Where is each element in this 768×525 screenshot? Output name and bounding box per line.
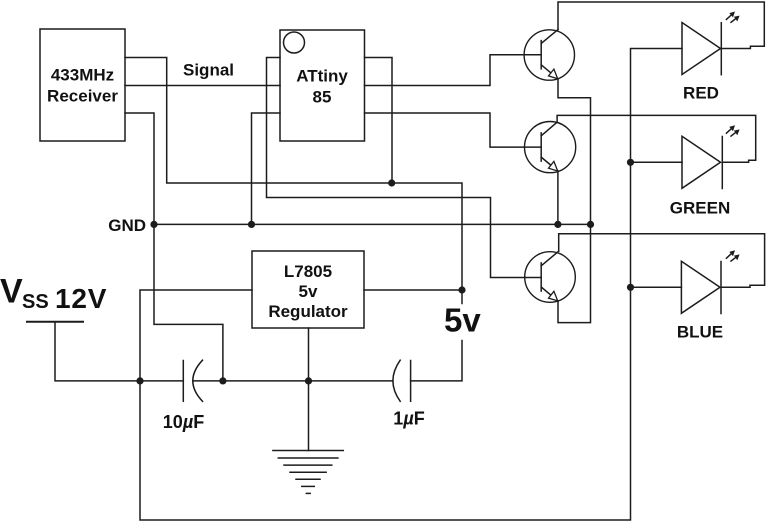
wire: regulator GND pin down through node to earth [308,328,310,451]
wire: Vss to 12V node [55,322,140,381]
svg-text:10µF: 10µF [163,412,204,432]
pin-1 marker circle on ATtiny85 [284,32,305,53]
node: ATtiny GND junction [248,221,255,228]
svg-text:5v: 5v [444,301,481,338]
transistor Q3 [525,251,576,302]
node: receiver GND junction on ground bus [150,221,157,228]
LED D1 RED [682,12,740,103]
node: 5v at regulator output [458,286,465,293]
node: GREEN anode tap on 12V rail [627,159,634,166]
svg-text:Signal: Signal [183,61,234,80]
wire: receiver GND pin down to ground bus and on to capacitor row [125,113,223,381]
supply terminal bar Vss [27,321,83,323]
svg-text:5v: 5v [299,282,318,301]
wire: 12V node up to regulator input [140,290,252,381]
svg-text:1µF: 1µF [393,409,424,429]
wire: 5v stub above label [461,290,463,304]
wire: Q3 emitter right and up to ground bus [558,224,591,322]
svg-text:RED: RED [683,84,719,103]
wire: ATtiny pin to Q1 base [365,55,542,86]
wire: BLUE anode [631,286,682,288]
wire: Q2 collector up and across to GREEN cathode loop [557,115,756,162]
wire: regulator output to 5v node [364,289,462,291]
wire: 12V node to C1 plate [140,380,183,382]
svg-text:GREEN: GREEN [670,199,730,218]
svg-text:Receiver: Receiver [47,87,118,106]
wire: Q1 emitter down to ground bus [558,79,591,225]
wire: ATtiny pin to Q2 base [365,113,542,147]
wire: Q3 collector up and across to BLUE cathode loop [559,234,765,288]
wire: C2 plate to 5v corner [411,341,462,381]
wire: ground bus GND [154,223,591,225]
wire: ATtiny GND pin down to ground bus [252,113,281,224]
capacitor C1 10uF [163,360,204,432]
svg-text:433MHz: 433MHz [51,66,114,85]
wire: Q1 collector up and across to RED cathode [558,2,764,49]
L7805 regulator U3 box [252,251,364,328]
wire: ground segment of capacitor row [193,380,393,382]
wire: receiver Vcc to 5v rail [125,58,462,291]
wire: ATtiny Vcc pin down to 5v rail [365,58,393,184]
node: Q2 emitter on ground bus [554,221,561,228]
svg-text:L7805: L7805 [284,262,332,281]
433MHz Receiver U1 box [40,29,125,141]
wire: ATtiny left pin to Q3 base [267,58,542,278]
wire: Q2 emitter down to ground bus [557,171,559,224]
node: Q1/Q3 emitters on ground bus [587,221,594,228]
svg-text:12V: 12V [55,283,107,314]
node: 12V node [136,377,143,384]
svg-text:V: V [0,272,23,310]
ground (earth) symbol [273,451,343,494]
node: 5v rail / ATtiny Vcc junction [388,179,395,186]
ATtiny85 U2 box [280,30,365,141]
node: BLUE anode tap on 12V rail [627,284,634,291]
svg-text:GND: GND [108,216,146,235]
svg-text:85: 85 [313,88,332,107]
capacitor C2 1uF [393,360,425,428]
transistor Q1 [524,30,574,81]
svg-text:BLUE: BLUE [677,323,723,342]
svg-text:Regulator: Regulator [268,302,348,321]
wire: GREEN anode [631,161,683,163]
svg-text:SS: SS [22,291,49,313]
node: regulator GND / earth junction [305,377,312,384]
label: Vss 12V supply [0,272,107,314]
node: receiver-GND path joins capacitor row [219,377,226,384]
LED D2 GREEN [670,125,740,217]
transistor Q2 [525,122,576,173]
wire: Signal from receiver to ATtiny [125,85,280,87]
svg-text:ATtiny: ATtiny [296,66,348,85]
LED D3 BLUE [677,250,740,341]
wire: 12V frame from supply node down, across bottom, up to LED anode rail [140,49,682,521]
